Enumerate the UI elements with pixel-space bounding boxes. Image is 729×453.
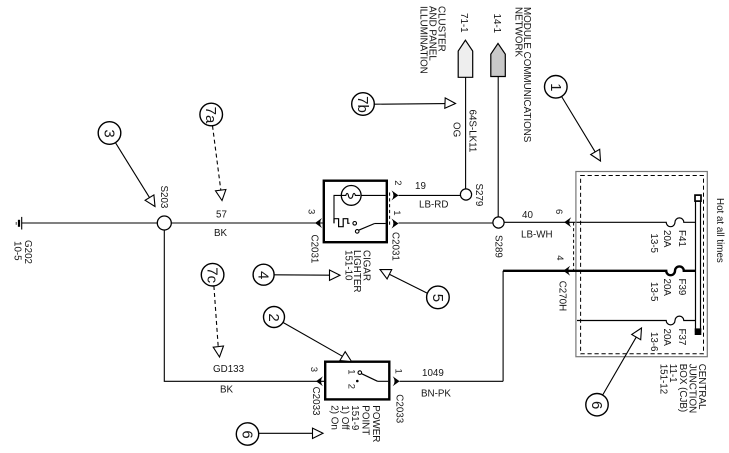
wire+fuse F41 <box>581 218 696 227</box>
connector C2031 dashed line <box>389 193 391 227</box>
wire: S203 down left riser <box>164 230 325 381</box>
lamp (illumination bulb) <box>341 186 361 206</box>
svg-text:BK: BK <box>214 228 228 239</box>
callout circle 6 left <box>236 423 323 445</box>
svg-text:4: 4 <box>554 255 565 260</box>
switch blade <box>359 224 375 231</box>
off-page connector 71-1 <box>458 40 473 77</box>
svg-text:151-10: 151-10 <box>342 250 353 281</box>
svg-text:20A: 20A <box>661 329 672 347</box>
splice S289 <box>493 217 504 228</box>
callout circle 4 <box>253 264 340 285</box>
off-page connector 14-1 <box>491 43 506 76</box>
svg-text:2: 2 <box>346 384 357 389</box>
svg-text:POWER: POWER <box>370 405 381 442</box>
bus bar <box>695 195 702 335</box>
switch blade <box>361 374 377 382</box>
wire+fuse F37 <box>577 316 696 325</box>
callout circle 1 <box>545 76 601 162</box>
wire: blade to pin 1 <box>375 223 386 225</box>
svg-text:2) On: 2) On <box>329 405 340 430</box>
svg-text:Hot at all times: Hot at all times <box>714 198 725 263</box>
svg-text:S203: S203 <box>158 186 169 209</box>
svg-text:6: 6 <box>553 209 564 214</box>
wire: riser from F39 down to power point row <box>502 271 504 382</box>
central junction box outline <box>576 172 707 357</box>
svg-text:BK: BK <box>220 385 234 396</box>
svg-text:C270H: C270H <box>557 281 568 312</box>
svg-text:C2031: C2031 <box>390 232 401 261</box>
svg-text:1: 1 <box>345 369 356 374</box>
callout circle 7a <box>200 103 226 200</box>
pin 4 arrow <box>563 266 570 276</box>
wire+fuse F39 bold <box>503 266 695 275</box>
svg-text:6: 6 <box>239 430 256 438</box>
svg-text:C2031: C2031 <box>309 235 320 264</box>
svg-text:C2033: C2033 <box>394 394 405 423</box>
svg-text:ILLUMINATION: ILLUMINATION <box>418 6 429 74</box>
label MODULE COMMUNICATIONS NETWORK <box>513 7 533 143</box>
pin 3 arrow <box>315 218 322 228</box>
svg-text:C2033: C2033 <box>310 387 321 416</box>
wire: internal branch <box>334 195 341 223</box>
svg-text:2: 2 <box>392 180 403 185</box>
svg-text:57: 57 <box>216 210 227 221</box>
wire: S289 to junction box pin 6 <box>504 221 580 223</box>
svg-text:S279: S279 <box>473 184 484 207</box>
pin 6 arrow <box>564 217 571 227</box>
wire: ground to S203 (57 BK) <box>22 222 158 224</box>
label fuse F39 <box>648 279 687 303</box>
switch contact b <box>355 230 359 234</box>
svg-text:3: 3 <box>306 209 317 214</box>
connector C270H dashed line <box>573 222 575 270</box>
svg-text:4: 4 <box>255 271 272 279</box>
callout circle 6 right <box>586 328 642 416</box>
wire: 14-1 down to S289 <box>497 77 499 217</box>
heating element <box>334 219 350 227</box>
wire: S203 to cigar lighter pin 3 <box>171 222 323 224</box>
wire: S279 up to connector 71-1 <box>465 77 467 189</box>
svg-text:13-6: 13-6 <box>648 332 659 352</box>
wire: blade to pin 1 <box>378 380 389 382</box>
svg-text:3: 3 <box>101 129 118 137</box>
svg-text:OG: OG <box>451 122 462 137</box>
svg-text:F37: F37 <box>676 329 687 346</box>
svg-text:LB-RD: LB-RD <box>419 200 448 211</box>
pin 1 arrow power point <box>393 376 400 386</box>
svg-text:F41: F41 <box>676 230 687 247</box>
svg-text:2: 2 <box>265 313 282 321</box>
svg-text:13-5: 13-5 <box>648 282 659 302</box>
switch pivot dot <box>356 380 359 383</box>
svg-text:7a: 7a <box>202 107 219 124</box>
wire: lamp to pin 2 <box>361 194 386 196</box>
svg-text:1: 1 <box>393 369 404 374</box>
callout circle 7c <box>201 263 224 357</box>
svg-text:1: 1 <box>391 210 402 215</box>
svg-text:20A: 20A <box>661 230 672 248</box>
svg-text:6: 6 <box>588 401 605 409</box>
callout circle 7b <box>352 93 456 116</box>
svg-text:1049: 1049 <box>422 368 444 379</box>
wire: pin1 to S289 (40 LB-WH) <box>399 222 494 224</box>
splice S203 <box>157 216 171 230</box>
svg-text:3: 3 <box>308 367 319 372</box>
svg-text:GD133: GD133 <box>213 364 245 375</box>
label fuse F37 <box>648 329 687 353</box>
ground G202 <box>16 217 21 230</box>
label fuse F41 <box>648 230 687 254</box>
cigar lighter U1 box <box>324 181 387 243</box>
label CIGAR LIGHTER 151-10 <box>342 250 371 292</box>
power point U2 box <box>325 362 389 400</box>
callout circle 3 <box>98 122 155 207</box>
svg-text:20A: 20A <box>661 279 672 297</box>
svg-text:LB-WH: LB-WH <box>521 230 553 241</box>
switch contact a <box>353 222 357 226</box>
label CENTRAL JUNCTION BOX <box>658 364 707 414</box>
svg-text:71-1: 71-1 <box>458 13 469 33</box>
callout circle 5 <box>380 270 449 309</box>
label POWER POINT 151-9 <box>329 405 381 442</box>
pin 2 arrow <box>392 190 399 200</box>
pin 3 arrow power point <box>316 376 323 386</box>
label CLUSTER AND PANEL ILLUMINATION <box>418 6 447 74</box>
svg-text:19: 19 <box>415 181 426 192</box>
wire: pin2 to S279 (19 LB-RD) <box>399 194 461 196</box>
svg-text:7c: 7c <box>204 267 221 283</box>
svg-text:G202: G202 <box>22 240 33 264</box>
svg-text:14-1: 14-1 <box>491 14 502 34</box>
position 1 contact <box>358 371 362 375</box>
svg-text:1: 1 <box>547 83 564 91</box>
svg-text:7b: 7b <box>354 96 371 113</box>
svg-text:F39: F39 <box>676 279 687 296</box>
svg-text:151-12: 151-12 <box>658 364 669 395</box>
svg-text:13-5: 13-5 <box>648 233 659 253</box>
svg-text:10-5: 10-5 <box>12 241 23 261</box>
pin 1 arrow <box>392 219 399 229</box>
central junction box dashed border <box>581 176 704 354</box>
wire: power point pin1 to riser (1049 BN-PK) <box>400 380 504 382</box>
svg-text:40: 40 <box>522 210 533 221</box>
splice S279 <box>460 189 471 200</box>
svg-text:5: 5 <box>429 294 446 302</box>
svg-text:NETWORK: NETWORK <box>513 7 524 58</box>
callout circle 2 <box>264 307 352 362</box>
svg-text:64S-LK11: 64S-LK11 <box>467 110 478 153</box>
svg-text:BN-PK: BN-PK <box>421 389 451 400</box>
svg-text:S289: S289 <box>493 235 504 258</box>
label G202 <box>12 240 34 264</box>
